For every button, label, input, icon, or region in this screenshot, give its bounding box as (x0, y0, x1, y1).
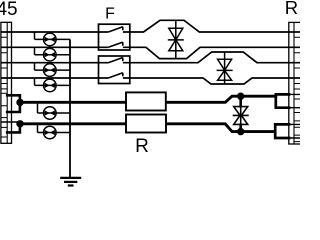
junction node VD3 top (237, 93, 244, 100)
gas discharge tube A6 (38, 124, 71, 139)
fuse block F lower box (99, 56, 130, 84)
gas discharge tube A1 (35, 32, 71, 46)
connector J1 contact divider lines (1, 37, 7, 137)
gas discharge tube A4 (35, 78, 71, 92)
svg-text:R: R (285, 0, 298, 18)
resistor R2 (126, 115, 166, 133)
wire pin1 (left J1 pin1 to fuse to lens to right J2 pin1) (1, 20, 300, 32)
thick pins J1 pair 4/5 with tie bar (7, 95, 20, 112)
resistor R1 (126, 92, 166, 110)
connector J2 RJ45 right: body (289, 22, 301, 144)
thick pins J2 pair 4/5 bracket (276, 94, 289, 107)
svg-text:RJ45: RJ45 (0, 0, 18, 20)
wire pin6 (1, 78, 300, 84)
svg-text:R: R (135, 136, 149, 157)
connector J1 RJ45 left: body (1, 22, 12, 143)
wire pin7 (thin lead J1) (1, 121, 20, 123)
connector J1 internal divider line (6, 22, 8, 143)
TVS suppressor VD3 (233, 96, 249, 131)
fuse F2 contact (108, 42, 123, 47)
junction node pair 7/8 (16, 120, 23, 127)
fuse F3 contact (108, 58, 123, 63)
connector J2 pin rows (thick pair rows inside body) (289, 94, 300, 138)
gas discharge tube A3 (35, 63, 71, 77)
thick pin J1 pin8 with tie bar (7, 124, 20, 133)
wire pin3 (1, 52, 300, 63)
connector J2 internal divider line (293, 22, 295, 144)
connector J2 contact divider lines (294, 37, 300, 141)
thick pins J2 pair 7/8 bracket (275, 124, 289, 138)
fuse F1 contact (108, 27, 123, 32)
gas discharge tube A2 (35, 47, 71, 61)
junction node VD3 bottom (237, 128, 244, 135)
fuse F4 contact (108, 73, 123, 78)
TVS suppressor VD1 (168, 20, 184, 58)
ground symbol (60, 178, 81, 186)
wire pin2 (1, 47, 300, 58)
ground bus wire (69, 39, 71, 177)
gas discharge tube A5 (38, 102, 71, 119)
junction node pair 4/5 (16, 99, 23, 106)
TVS suppressor VD2 (217, 52, 233, 84)
svg-text:F: F (105, 5, 115, 22)
fuse block F upper box (99, 24, 130, 50)
thick wire B (pair 7/8 line) (20, 124, 277, 132)
thick wire A (pair 4/5 line) (20, 96, 277, 102)
